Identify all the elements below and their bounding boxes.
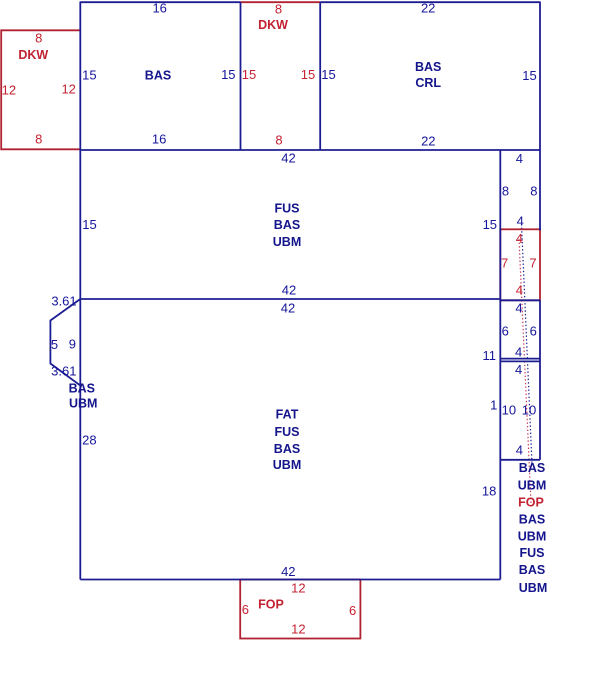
svg-text:UBM: UBM bbox=[69, 397, 97, 411]
room FOP bottom (red outline) bbox=[240, 580, 360, 639]
svg-text:42: 42 bbox=[281, 300, 295, 315]
svg-text:12: 12 bbox=[291, 622, 305, 637]
svg-text:18: 18 bbox=[482, 483, 496, 498]
svg-text:BAS: BAS bbox=[519, 563, 545, 577]
wall horizontal y=300.3 box B/C divider bbox=[500, 299, 540, 301]
svg-text:15: 15 bbox=[242, 67, 256, 82]
svg-text:6: 6 bbox=[502, 323, 509, 338]
bay window polyline left side bbox=[50, 299, 80, 386]
svg-text:8: 8 bbox=[502, 183, 509, 198]
svg-text:BAS: BAS bbox=[145, 69, 171, 83]
wall vertical x=240 top row bbox=[240, 2, 242, 150]
wall right vertical x=540 upper (blue) bbox=[539, 2, 541, 231]
svg-text:DKW: DKW bbox=[258, 18, 288, 32]
svg-text:1: 1 bbox=[490, 397, 497, 412]
svg-text:FUS: FUS bbox=[520, 546, 545, 560]
svg-text:BAS: BAS bbox=[519, 513, 545, 527]
svg-text:4: 4 bbox=[516, 151, 523, 166]
svg-text:12: 12 bbox=[291, 581, 305, 596]
svg-text:8: 8 bbox=[35, 30, 42, 45]
svg-text:10: 10 bbox=[522, 402, 536, 417]
svg-text:4: 4 bbox=[515, 362, 522, 377]
wall horizontal y=361.4 box D top bbox=[500, 360, 540, 362]
svg-text:9: 9 bbox=[69, 337, 76, 352]
svg-text:10: 10 bbox=[502, 402, 516, 417]
svg-text:15: 15 bbox=[221, 67, 235, 82]
wall vertical x=500 from y150 to y579 bbox=[499, 150, 501, 580]
svg-text:4: 4 bbox=[516, 282, 523, 297]
wall top edge BAS CRL bbox=[320, 1, 540, 3]
svg-text:15: 15 bbox=[321, 67, 335, 82]
room B red box (7x4) right column bbox=[500, 229, 540, 300]
svg-text:4: 4 bbox=[515, 345, 522, 360]
svg-text:DKW: DKW bbox=[18, 48, 48, 62]
svg-text:8: 8 bbox=[530, 183, 537, 198]
svg-text:15: 15 bbox=[522, 68, 536, 83]
svg-text:CRL: CRL bbox=[415, 76, 441, 90]
svg-text:11: 11 bbox=[482, 348, 496, 363]
svg-text:BAS: BAS bbox=[274, 218, 300, 232]
svg-text:12: 12 bbox=[2, 83, 16, 98]
room DKW top-middle top edge (red) bbox=[241, 1, 321, 3]
svg-text:6: 6 bbox=[349, 603, 356, 618]
svg-text:FUS: FUS bbox=[275, 425, 300, 439]
svg-text:FUS: FUS bbox=[275, 202, 300, 216]
leader dotted red from box B label to FOP text bbox=[519, 239, 531, 503]
svg-text:BAS: BAS bbox=[415, 60, 441, 74]
svg-text:42: 42 bbox=[281, 564, 295, 579]
wall top edge BAS bbox=[80, 1, 240, 3]
wall horizontal y=579.5 FAT bottom bbox=[80, 579, 500, 581]
svg-text:UBM: UBM bbox=[519, 581, 547, 595]
svg-text:BAS: BAS bbox=[519, 461, 545, 475]
wall horizontal y=150 row divider bbox=[80, 149, 540, 151]
svg-text:42: 42 bbox=[281, 151, 295, 166]
svg-text:42: 42 bbox=[282, 283, 296, 298]
wall right vertical x=540 lower (blue) bbox=[539, 300, 541, 460]
svg-text:12: 12 bbox=[61, 82, 75, 97]
svg-text:3.61: 3.61 bbox=[51, 363, 76, 378]
svg-text:8: 8 bbox=[275, 2, 282, 17]
svg-text:22: 22 bbox=[421, 1, 435, 16]
svg-text:UBM: UBM bbox=[273, 458, 301, 472]
room DKW left (red outline) bbox=[1, 30, 80, 149]
leader dotted navy from box A label to BAS/UBM text bbox=[522, 224, 533, 464]
svg-text:4: 4 bbox=[517, 213, 524, 228]
wall horizontal y=299 FUS/FAT divider bbox=[80, 298, 500, 300]
svg-text:16: 16 bbox=[152, 131, 166, 146]
svg-text:15: 15 bbox=[483, 217, 497, 232]
svg-text:15: 15 bbox=[82, 217, 96, 232]
svg-text:8: 8 bbox=[275, 133, 282, 148]
svg-text:7: 7 bbox=[529, 256, 536, 271]
svg-text:22: 22 bbox=[421, 133, 435, 148]
svg-text:4: 4 bbox=[515, 301, 522, 316]
svg-text:15: 15 bbox=[301, 67, 315, 82]
wall vertical x=320 top row bbox=[319, 2, 321, 150]
svg-text:16: 16 bbox=[152, 1, 166, 16]
wall left vertical x=80 full height bbox=[79, 2, 81, 580]
svg-text:FOP: FOP bbox=[258, 597, 284, 611]
svg-text:8: 8 bbox=[35, 131, 42, 146]
svg-text:UBM: UBM bbox=[518, 478, 546, 492]
svg-text:4: 4 bbox=[516, 231, 523, 246]
wall horizontal y=459.8 box D bottom bbox=[500, 459, 540, 461]
svg-text:4: 4 bbox=[516, 442, 523, 457]
svg-text:UBM: UBM bbox=[518, 530, 546, 544]
svg-text:28: 28 bbox=[82, 433, 96, 448]
svg-text:FOP: FOP bbox=[518, 495, 544, 509]
wall horizontal y=358.6 box C bottom bbox=[500, 358, 540, 360]
svg-text:15: 15 bbox=[82, 67, 96, 82]
svg-text:6: 6 bbox=[530, 323, 537, 338]
svg-text:6: 6 bbox=[242, 602, 249, 617]
svg-text:FAT: FAT bbox=[276, 408, 299, 422]
svg-text:3.61: 3.61 bbox=[51, 293, 76, 308]
svg-text:BAS: BAS bbox=[274, 442, 300, 456]
svg-text:5: 5 bbox=[51, 337, 58, 352]
svg-text:BAS: BAS bbox=[69, 382, 95, 396]
svg-text:7: 7 bbox=[501, 256, 508, 271]
svg-text:UBM: UBM bbox=[273, 235, 301, 249]
